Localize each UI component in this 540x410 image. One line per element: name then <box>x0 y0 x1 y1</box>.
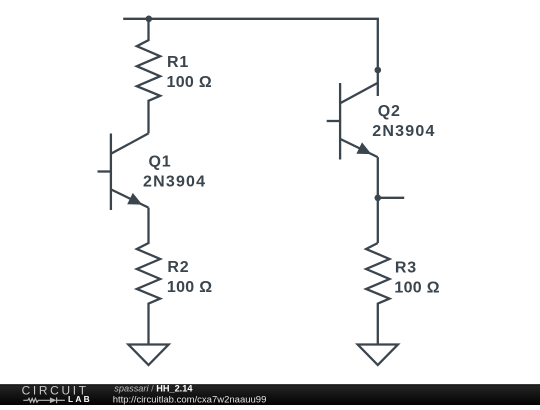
ground G2 <box>358 345 398 366</box>
svg-text:100 Ω: 100 Ω <box>167 74 212 91</box>
svg-text:Q2: Q2 <box>378 103 401 120</box>
transistor Q1: emitter arrow <box>127 193 142 205</box>
svg-text:LAB: LAB <box>68 394 92 404</box>
svg-text:2N3904: 2N3904 <box>143 174 206 191</box>
svg-text:100 Ω: 100 Ω <box>167 279 212 296</box>
resistor R1 <box>137 19 160 134</box>
CircuitLab logo: resistor-diode squiggle <box>23 397 65 403</box>
node: junction dot at Q2 collector <box>375 67 382 74</box>
transistor Q1: emitter diagonal <box>111 189 149 207</box>
svg-text:R1: R1 <box>167 54 189 71</box>
ground G1 <box>128 345 168 366</box>
svg-text:2N3904: 2N3904 <box>372 123 435 140</box>
wire: top rail from R1 node to Q2 collector <box>123 19 378 96</box>
svg-text:spassari / HH_2.14: spassari / HH_2.14 <box>114 384 193 394</box>
svg-text:R3: R3 <box>395 259 417 276</box>
transistor Q2: base lead stub <box>327 120 340 122</box>
transistor Q2: emitter diagonal <box>340 139 378 157</box>
resistor R2 (with leads from Q1 emitter to ground) <box>137 208 160 345</box>
svg-text:R2: R2 <box>167 259 189 276</box>
node: junction dot at top of R1 <box>146 15 153 22</box>
transistor Q1: base lead stub <box>98 170 111 172</box>
transistor Q2: emitter arrow <box>356 142 371 154</box>
transistor Q1: collector diagonal <box>111 133 149 153</box>
wire: Q2 emitter to R3 with side stub <box>377 157 379 243</box>
svg-text:100 Ω: 100 Ω <box>394 279 439 296</box>
transistor Q2: collector diagonal <box>340 83 378 103</box>
transistor Q1 (NPN 2N3904): base bar <box>110 134 112 211</box>
node: junction dot at Q2 emitter / R3 <box>375 195 382 202</box>
resistor R3 (with leads to ground) <box>366 243 389 345</box>
wire: stub right of node A <box>378 197 404 199</box>
svg-text:http://circuitlab.com/cxa7w2na: http://circuitlab.com/cxa7w2naauu99 <box>113 394 267 405</box>
transistor Q2 (NPN 2N3904): base bar <box>339 83 341 160</box>
svg-text:Q1: Q1 <box>149 154 172 171</box>
